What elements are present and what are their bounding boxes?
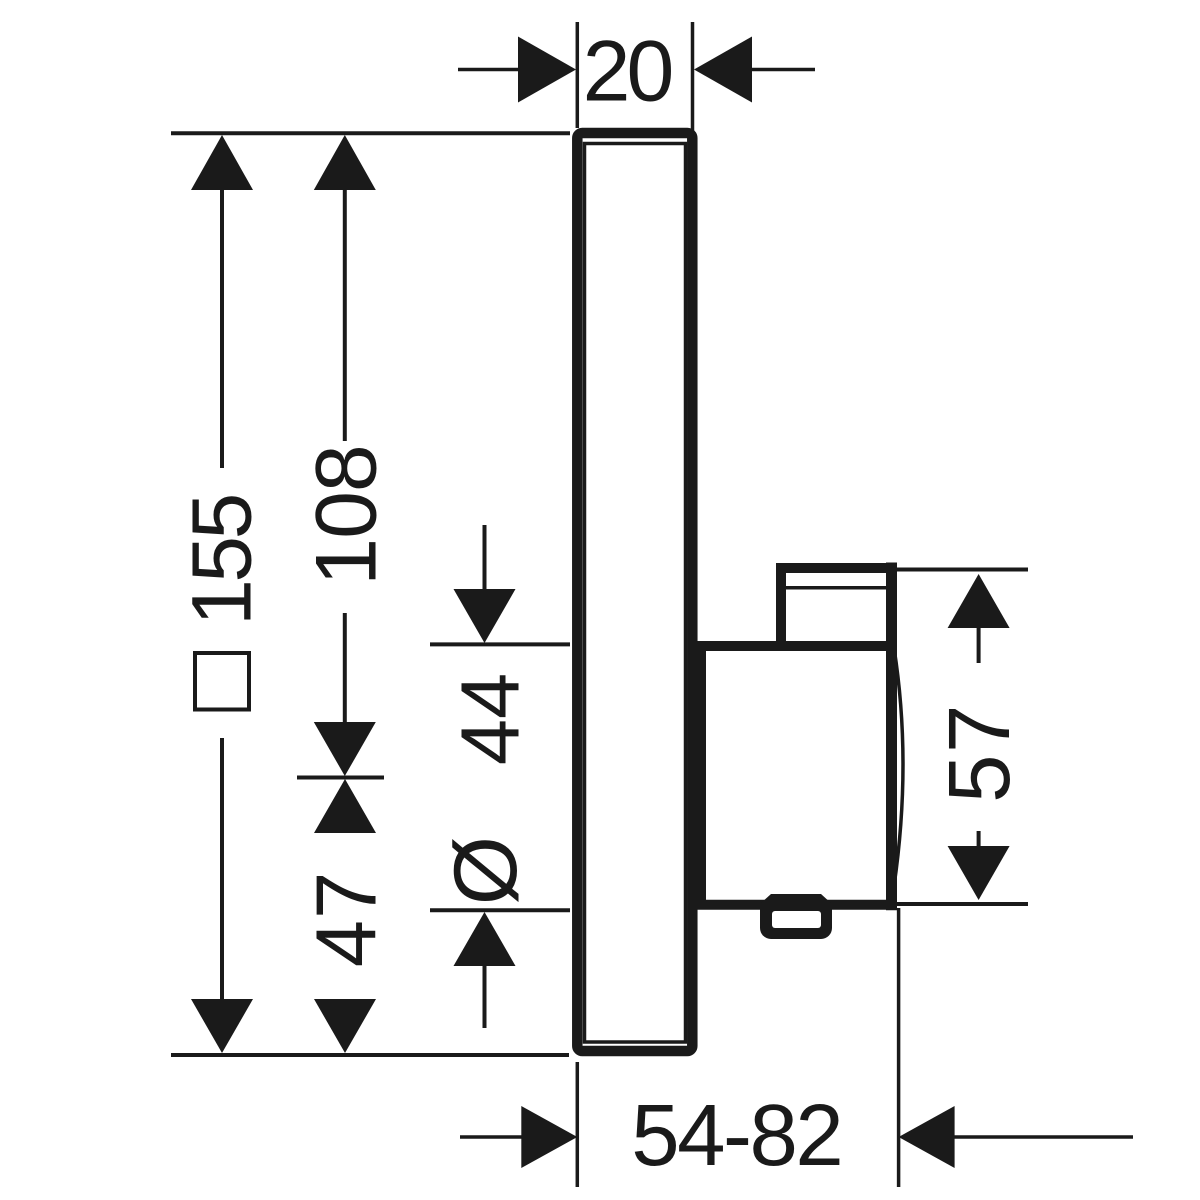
dim 20 left arrowhead bbox=[518, 37, 576, 103]
dim 44 upper line bbox=[483, 525, 487, 597]
dim 54-82 right tail bbox=[954, 1135, 1133, 1139]
dim 44 bottom arrowhead bbox=[454, 912, 516, 966]
dim 57 top arrowhead bbox=[948, 574, 1010, 628]
dim 20: left tail bbox=[458, 68, 521, 72]
dim 57 upper stub bbox=[977, 626, 981, 663]
dim 108 line upper segment bbox=[343, 188, 347, 441]
dim 155 line upper segment bbox=[220, 188, 224, 468]
stop ring top edge bbox=[781, 563, 892, 573]
dim 44 lower line bbox=[483, 964, 487, 1028]
valve body bottom edge bbox=[697, 900, 892, 910]
dim 20: left extension line bbox=[576, 22, 580, 128]
dim 44 lower tick bbox=[430, 908, 570, 912]
dim 54-82 left tail bbox=[460, 1135, 523, 1139]
cover plate outer rectangle bbox=[577, 133, 692, 1051]
dim 44 upper tick bbox=[430, 642, 570, 646]
dim 57 top extension line bbox=[893, 568, 1028, 572]
dim 108 bottom arrowhead bbox=[314, 722, 376, 776]
svg-text:Ø: Ø bbox=[435, 836, 535, 905]
dim 108 top arrowhead bbox=[314, 135, 376, 190]
dim 54-82 right extension line bbox=[897, 908, 901, 1187]
stop ring inner line bbox=[786, 586, 887, 590]
dim 155 top arrowhead bbox=[191, 135, 253, 190]
handle arc right side bbox=[894, 648, 903, 886]
dim 20 right arrowhead bbox=[694, 37, 752, 103]
dim 57 bottom arrowhead bbox=[948, 846, 1010, 900]
valve body right edge bbox=[886, 568, 897, 905]
dim 54-82 right arrowhead bbox=[899, 1106, 955, 1168]
stop ring left edge bbox=[776, 568, 786, 646]
dim 44 top arrowhead bbox=[454, 589, 516, 643]
dim 47 top arrowhead bbox=[314, 779, 376, 833]
square symbol of 155 bbox=[195, 653, 249, 710]
dim 54-82 left extension line bbox=[576, 1062, 580, 1187]
bottom extension line bbox=[171, 1053, 569, 1057]
dim 155 bottom arrowhead bbox=[191, 999, 253, 1053]
dim 57 bottom extension line bbox=[897, 902, 1028, 906]
bottom tab of valve body bbox=[760, 894, 832, 939]
svg-text:20: 20 bbox=[583, 24, 672, 120]
svg-text:155: 155 bbox=[175, 495, 269, 625]
svg-text:47: 47 bbox=[300, 871, 395, 968]
svg-text:54-82: 54-82 bbox=[631, 1087, 841, 1184]
dim 20: right extension line bbox=[691, 22, 695, 136]
dim 47 bottom arrowhead bbox=[314, 999, 376, 1053]
dim 57 lower stub bbox=[977, 831, 981, 846]
dim 20: right tail bbox=[750, 68, 815, 72]
tick between 108 and 47 bbox=[297, 776, 384, 780]
dim 155 line lower segment bbox=[220, 738, 224, 1000]
dim 108 line lower segment bbox=[343, 613, 347, 726]
svg-text:108: 108 bbox=[299, 445, 395, 586]
svg-text:57: 57 bbox=[931, 703, 1028, 803]
cover plate inner line bbox=[585, 144, 686, 1043]
valve body top edge bbox=[697, 641, 890, 651]
top extension line bbox=[171, 131, 570, 135]
valve body left edge bbox=[696, 646, 706, 904]
dim 54-82 left arrowhead bbox=[521, 1106, 577, 1168]
svg-text:44: 44 bbox=[444, 673, 537, 765]
